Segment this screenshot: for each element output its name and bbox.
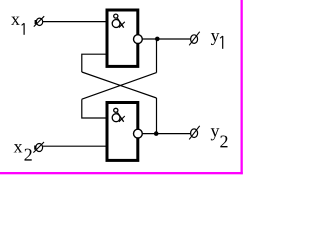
- label y2 subscript 2: [220, 135, 227, 147]
- magenta border bottom: [0, 172, 243, 174]
- wire output y2: [142, 133, 190, 135]
- wire diagonal y1 feedback to gate U2: [82, 73, 157, 100]
- nand gate U2 output bubble: [134, 129, 143, 138]
- terminal y2 open circle with slash: [189, 126, 200, 140]
- label y2 letter y: [211, 128, 220, 140]
- wire feedback hook to gate U1 lower input: [82, 54, 107, 72]
- label x2 subscript 2: [25, 149, 32, 161]
- label y1 letter y: [211, 33, 220, 45]
- nand gate U1 body: [107, 10, 138, 66]
- wire stub down from node y1: [156, 39, 158, 73]
- terminal x2 open circle with slash: [33, 142, 44, 153]
- wire stub up from node y2: [156, 98, 158, 134]
- nand gate U2 ampersand label: [112, 108, 125, 122]
- wire output y1: [142, 38, 190, 40]
- label y1 subscript 1: [220, 36, 223, 49]
- nand gate U1 output bubble: [134, 35, 143, 44]
- terminal x1 open circle with slash: [34, 16, 44, 26]
- nand gate U1 ampersand label: [112, 14, 125, 28]
- nand gate U2 body: [107, 103, 138, 161]
- label x1 letter x: [11, 17, 20, 25]
- wire feedback hook to gate U2 upper input: [82, 99, 107, 118]
- terminal y1 open circle with slash: [189, 32, 200, 46]
- wire x2 input: [43, 145, 107, 147]
- node y1 junction dot: [155, 37, 160, 42]
- node y2 junction dot: [154, 131, 159, 136]
- label x1 subscript 1: [22, 23, 25, 35]
- wire diagonal y2 feedback to gate U1: [82, 72, 157, 98]
- wire x1 input: [43, 21, 107, 23]
- magenta border right: [241, 0, 243, 174]
- label x2 letter x: [14, 144, 23, 152]
